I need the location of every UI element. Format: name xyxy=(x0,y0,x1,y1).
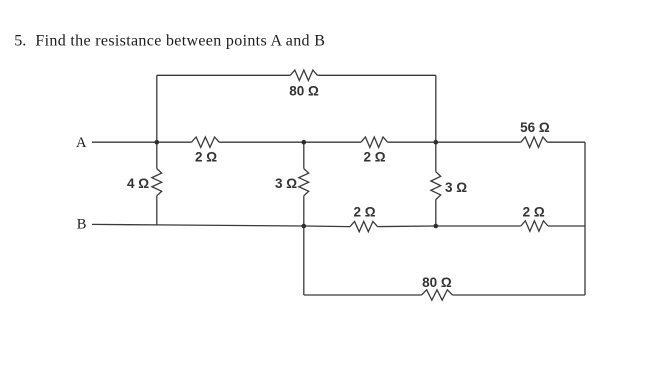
svg-text:2 Ω: 2 Ω xyxy=(195,149,217,164)
svg-text:5.: 5. xyxy=(14,32,26,49)
svg-text:2 Ω: 2 Ω xyxy=(364,149,386,164)
wire: left rail lower (N4 down to bottom loop) xyxy=(303,226,305,295)
svg-text:B: B xyxy=(77,216,87,232)
svg-text:3 Ω: 3 Ω xyxy=(275,176,297,191)
wire: 3ohm right bottom lead xyxy=(435,200,437,226)
wire: A row, 2ohm to node N3 xyxy=(388,141,436,143)
wire: 3ohm left bottom lead xyxy=(303,196,305,226)
wire: bottom loop left segment xyxy=(304,294,422,296)
wire: terminal B lead to node N4 xyxy=(92,224,304,226)
wire: left vertical from top loop down to node N1 xyxy=(156,75,158,142)
wire: 4ohm top lead xyxy=(156,142,158,168)
resistor 2ohm (row A, left) xyxy=(192,137,220,147)
resistor 2ohm (row A, right) xyxy=(361,137,388,147)
wire: lower row, N4 to 2ohm xyxy=(304,225,350,228)
svg-text:Find the resistance between po: Find the resistance between points A and… xyxy=(35,32,325,49)
wire: lower row, 2ohm to node N5 xyxy=(378,225,436,228)
node N4 junction dot xyxy=(302,224,307,229)
wire: right rail lower (lower row down to bottom loop) xyxy=(584,226,586,295)
wire: 3ohm left top lead xyxy=(303,142,305,168)
node N2 junction dot xyxy=(302,140,307,145)
wire: A row, N3 to 56ohm xyxy=(436,141,521,143)
title: problem statement xyxy=(14,32,325,49)
wire: top loop left segment xyxy=(157,74,290,76)
wire: A row, N1 to 2ohm xyxy=(157,141,192,143)
resistor 2ohm (lower row, left) xyxy=(350,221,378,231)
svg-text:56 Ω: 56 Ω xyxy=(520,120,550,135)
resistor 2ohm (lower row, right) xyxy=(521,221,548,231)
wire: top loop right segment xyxy=(317,74,435,76)
svg-text:2 Ω: 2 Ω xyxy=(353,205,375,220)
wire: A row, 56ohm to right rail xyxy=(547,141,585,143)
wire: lower row, 2ohm to right rail xyxy=(548,225,585,227)
wire: bottom loop right segment xyxy=(453,294,586,296)
svg-text:80 Ω: 80 Ω xyxy=(289,84,319,99)
svg-text:3 Ω: 3 Ω xyxy=(445,180,467,195)
resistor 80ohm (top) xyxy=(290,70,317,80)
wire: 3ohm right top lead xyxy=(435,142,437,172)
node N1 junction dot xyxy=(155,140,160,145)
wire: lower row, N5 to 2ohm xyxy=(436,225,521,227)
svg-text:A: A xyxy=(76,135,87,151)
wire: terminal A lead xyxy=(92,141,157,143)
svg-text:80 Ω: 80 Ω xyxy=(422,275,452,290)
wire: A row, N2 to 2ohm xyxy=(304,141,361,143)
resistor 4ohm (vertical) xyxy=(152,169,162,196)
svg-text:2 Ω: 2 Ω xyxy=(523,204,545,219)
svg-text:4 Ω: 4 Ω xyxy=(127,176,149,191)
node B terminal label xyxy=(77,216,87,232)
wire: right vertical from top loop down to node N3 xyxy=(435,75,437,142)
resistor 56ohm xyxy=(521,137,548,147)
resistor 3ohm (vertical, right) xyxy=(431,172,441,200)
wire: 4ohm bottom lead xyxy=(156,196,158,225)
node A terminal label xyxy=(76,135,87,151)
node N3 junction dot xyxy=(434,140,439,145)
resistor 80ohm (bottom) xyxy=(422,290,453,300)
resistor 3ohm (vertical, left) xyxy=(299,169,309,196)
node N5 junction dot xyxy=(434,224,439,229)
wire: A row, 2ohm to node N2 xyxy=(219,141,304,143)
wire: right rail upper (N3 row to lower row) xyxy=(584,142,586,226)
